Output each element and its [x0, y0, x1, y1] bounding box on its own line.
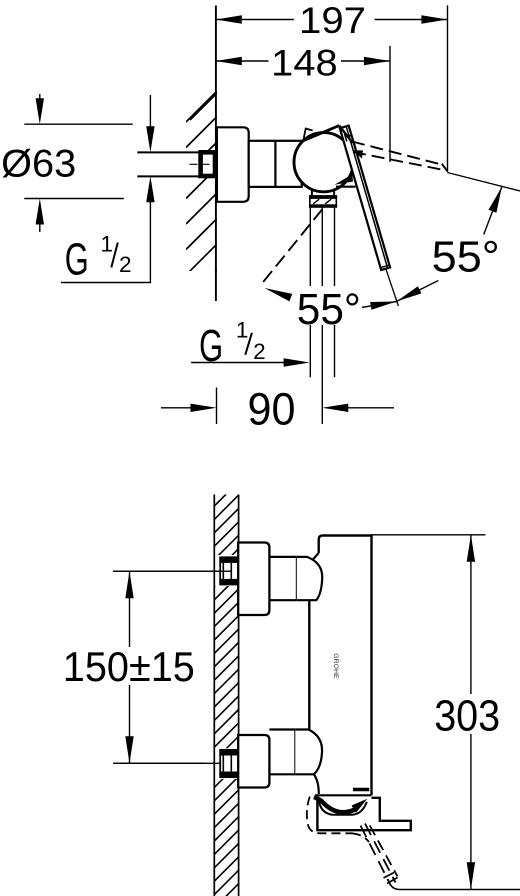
white hole for lower wall socket — [213, 748, 239, 779]
svg-text:150±15: 150±15 — [63, 643, 195, 690]
body bottom edge — [315, 794, 372, 796]
valve body cylinder (top view) — [249, 141, 302, 187]
upper wall socket (threaded) — [220, 557, 238, 584]
dim 150 upper extension line — [113, 570, 231, 572]
hatched wall section (top view) — [186, 91, 219, 326]
lever handle (solid, lowered position) — [340, 126, 390, 270]
outlet left extension line — [309, 207, 311, 377]
body outline (bottom view) — [319, 536, 372, 796]
dim G1/2 inlet upper arrow line — [149, 95, 151, 140]
body left lower fillet — [314, 774, 319, 794]
svg-text:90: 90 — [248, 384, 296, 435]
dim 197 left arrow — [216, 15, 242, 23]
lower escutcheon (bottom view) — [238, 735, 269, 788]
dim O63 upper arrow line — [39, 94, 41, 112]
svg-text:G: G — [199, 320, 223, 371]
lower 55-deg dimension chord — [362, 302, 397, 308]
dim 90 right arrow — [322, 404, 348, 412]
lower union nut — [295, 730, 322, 775]
svg-text:GROHE: GROHE — [332, 653, 339, 679]
lower supply centerline — [113, 762, 231, 764]
lower wall socket (threaded) — [220, 750, 238, 777]
halo for 148 — [270, 45, 340, 78]
wall union socket (thick square) — [201, 152, 215, 176]
handle cap rear flag — [304, 129, 313, 140]
wall line lower stub / 90-dim extension — [216, 388, 218, 425]
svg-text:55°: 55° — [432, 234, 500, 282]
outlet right extension line — [334, 207, 336, 377]
lever axis extension line — [386, 269, 399, 306]
dim 197 right arrow — [421, 15, 447, 23]
spout bowl — [319, 799, 367, 815]
hose end solid curve — [390, 883, 400, 890]
upper union nut — [297, 557, 322, 600]
dashed hose line 3 — [370, 826, 398, 877]
body left edge between unions — [308, 601, 310, 730]
dashed hose line 1 — [361, 826, 391, 886]
pipe centerline (dash-dot) — [190, 163, 216, 165]
lever handle raised position (dashed) lower line — [353, 152, 447, 171]
dim 90 line right part — [346, 407, 394, 409]
dark wedge at lever base — [335, 174, 354, 185]
svg-text:2: 2 — [253, 339, 266, 364]
dim O63 lower arrow — [36, 199, 44, 225]
halo for 197 — [295, 3, 373, 36]
dim 90 line left part — [161, 407, 193, 409]
dim O63 upper arrow — [36, 98, 44, 124]
cartridge housing circle — [294, 133, 353, 192]
label G1/2 inlet underline — [61, 282, 151, 284]
svg-text:197: 197 — [299, 0, 366, 41]
halo for 90 — [243, 390, 297, 427]
wall strip surface line — [238, 495, 240, 896]
dim 197 right extension line — [447, 5, 449, 172]
outlet swivel position (dashed line 55 deg) — [260, 209, 323, 287]
body segment divider — [274, 141, 276, 187]
handshower dashed outline curve to hose — [352, 833, 369, 842]
dim 148 right extension line — [389, 46, 391, 162]
dashed lever end cap — [442, 164, 448, 171]
escutcheon flange (top view) — [217, 127, 249, 202]
lower 55-deg bowtie arrow left wing — [370, 302, 396, 310]
hose end cap dash — [384, 873, 395, 879]
upper escutcheon (bottom view) — [238, 543, 269, 616]
upper supply centerline — [113, 570, 231, 572]
shower holder bracket — [317, 798, 410, 830]
dashed hose line 2 — [365, 824, 396, 883]
dim 148 left arrow — [216, 57, 242, 65]
svg-text:Ø63: Ø63 — [1, 143, 76, 186]
dim 303 bottom arrow — [467, 862, 475, 889]
dim 150 top arrow — [125, 571, 133, 598]
dim 90 left arrow — [191, 404, 217, 412]
svg-text:148: 148 — [271, 42, 338, 84]
dim O63 lower arrow line — [39, 212, 41, 232]
hatched wall strip (bottom view) — [214, 482, 238, 896]
lower 55-deg bowtie arrow right wing — [396, 286, 421, 301]
halo for lower 55 — [295, 286, 362, 325]
svg-text:55°: 55° — [297, 286, 361, 334]
lower union cylinder — [269, 728, 295, 730]
upper 55-deg leader line — [484, 187, 502, 235]
white hole for upper wall socket — [213, 555, 239, 586]
supply pipe G1/2 nipple (top view) — [137, 152, 198, 176]
label G1/2 outlet underline — [191, 362, 285, 364]
dim G1/2 inlet lower arrow line — [149, 188, 151, 283]
bottom extension line (303) — [400, 889, 520, 891]
body top-left chamfer — [313, 553, 318, 559]
label G1/2 outlet leader arrow — [284, 358, 310, 366]
extension of raised lever direction (chord line) — [447, 173, 520, 192]
dim O63 upper extension line — [24, 123, 132, 125]
dim G1/2 inlet lower arrow — [146, 176, 154, 202]
dim 150 bottom arrow — [125, 736, 133, 763]
lever handle raised position (dashed) upper line — [352, 142, 442, 165]
handshower dashed outline left arc — [307, 797, 352, 834]
fraction slash (inlet) — [111, 243, 118, 268]
shower outlet neck — [311, 189, 313, 196]
upper 55-deg arrowhead — [489, 187, 502, 213]
wall strip left edge — [213, 495, 215, 896]
dim 303 line — [470, 535, 472, 890]
dim 303 top arrow — [467, 535, 475, 562]
halo for 303 — [432, 694, 502, 734]
aerator slot — [353, 788, 369, 791]
wall surface line (top view) — [215, 6, 217, 302]
upper union cylinder — [269, 556, 296, 558]
svg-text:G: G — [65, 234, 89, 285]
svg-text:1: 1 — [236, 318, 249, 343]
outlet center extension line — [321, 207, 323, 424]
handle cap right edge — [339, 126, 352, 144]
svg-text:303: 303 — [434, 691, 500, 740]
dashed lever pointed tip wedge — [352, 150, 363, 159]
fraction slash (outlet) — [245, 333, 252, 355]
spout bowl inner crescent — [314, 797, 355, 812]
lower 55-deg left arrowhead — [265, 288, 293, 301]
dim 303 upper extension line — [372, 534, 486, 536]
dim 150 line — [129, 571, 131, 763]
outlet threaded collar — [310, 196, 337, 207]
dim 148 right arrow — [364, 57, 390, 65]
svg-text:1: 1 — [101, 232, 114, 257]
halo for 150+-15 — [59, 647, 196, 685]
dim 150 lower extension line — [113, 762, 204, 764]
handle cap top edge — [304, 126, 339, 141]
dim 148 line — [216, 60, 269, 62]
svg-text:2: 2 — [119, 252, 132, 277]
housing base line right of circle — [336, 186, 356, 188]
dim O63 lower extension line — [24, 198, 124, 200]
dim 197 line — [216, 19, 294, 21]
dim G1/2 inlet upper arrow — [146, 126, 154, 152]
handle cap notch — [344, 134, 352, 142]
